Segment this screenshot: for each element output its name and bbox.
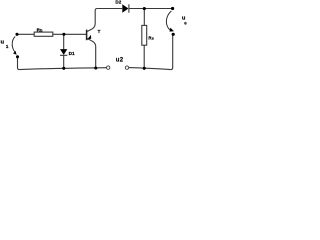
wire input B down to bottom rail — [18, 57, 20, 70]
svg-text:u: u — [1, 40, 5, 46]
bottom rail right segment — [129, 68, 171, 70]
D1 junction dot bottom — [62, 67, 65, 70]
diode D1 triangle — [60, 49, 67, 55]
resistor Rb — [34, 32, 53, 36]
svg-text:s: s — [152, 36, 154, 41]
voltage arrow u1 arc — [12, 36, 15, 52]
svg-text:D2: D2 — [115, 0, 121, 4]
transistor emitter path down to bottom rail — [87, 38, 96, 68]
wire right side down — [171, 36, 173, 70]
wire Rb to base — [53, 33, 87, 35]
diode D2 triangle — [122, 4, 128, 12]
transistor emitter junction dot — [94, 66, 97, 69]
wire Rs top — [143, 9, 145, 26]
transistor T base bar — [86, 30, 88, 41]
u1 arrowhead — [13, 51, 17, 55]
resistor Rs — [142, 25, 147, 45]
transistor emitter arrow — [87, 35, 91, 40]
ue arrowhead — [170, 28, 174, 32]
terminal circle u2 right — [125, 66, 128, 69]
wire A to Rb — [17, 33, 34, 35]
Rs bottom junction dot — [143, 67, 146, 70]
svg-text:T: T — [98, 29, 101, 35]
diode D2 cathode bar — [128, 4, 130, 12]
node A dot — [15, 33, 18, 36]
svg-text:1: 1 — [6, 44, 9, 50]
node B dot — [16, 55, 19, 58]
svg-text:D1: D1 — [69, 51, 75, 57]
top rail after D2 — [129, 8, 172, 10]
top rail — [97, 8, 122, 10]
diode D1 cathode bar — [60, 54, 67, 56]
voltage arrow ue arc — [166, 11, 171, 30]
wire D1 branch down — [63, 34, 65, 49]
bottom rail left segment — [19, 68, 106, 70]
Rs tap junction dot — [143, 7, 146, 10]
node C dot — [172, 33, 175, 36]
wire Rs bottom to rail — [143, 45, 145, 68]
svg-text:u2: u2 — [116, 58, 124, 64]
top rail end dot — [171, 7, 174, 10]
transistor collector path up to top rail — [87, 9, 97, 32]
wire D1 to bottom rail — [63, 55, 65, 68]
junction dot base/D1 — [62, 33, 65, 36]
terminal circle u2 left — [107, 66, 110, 69]
